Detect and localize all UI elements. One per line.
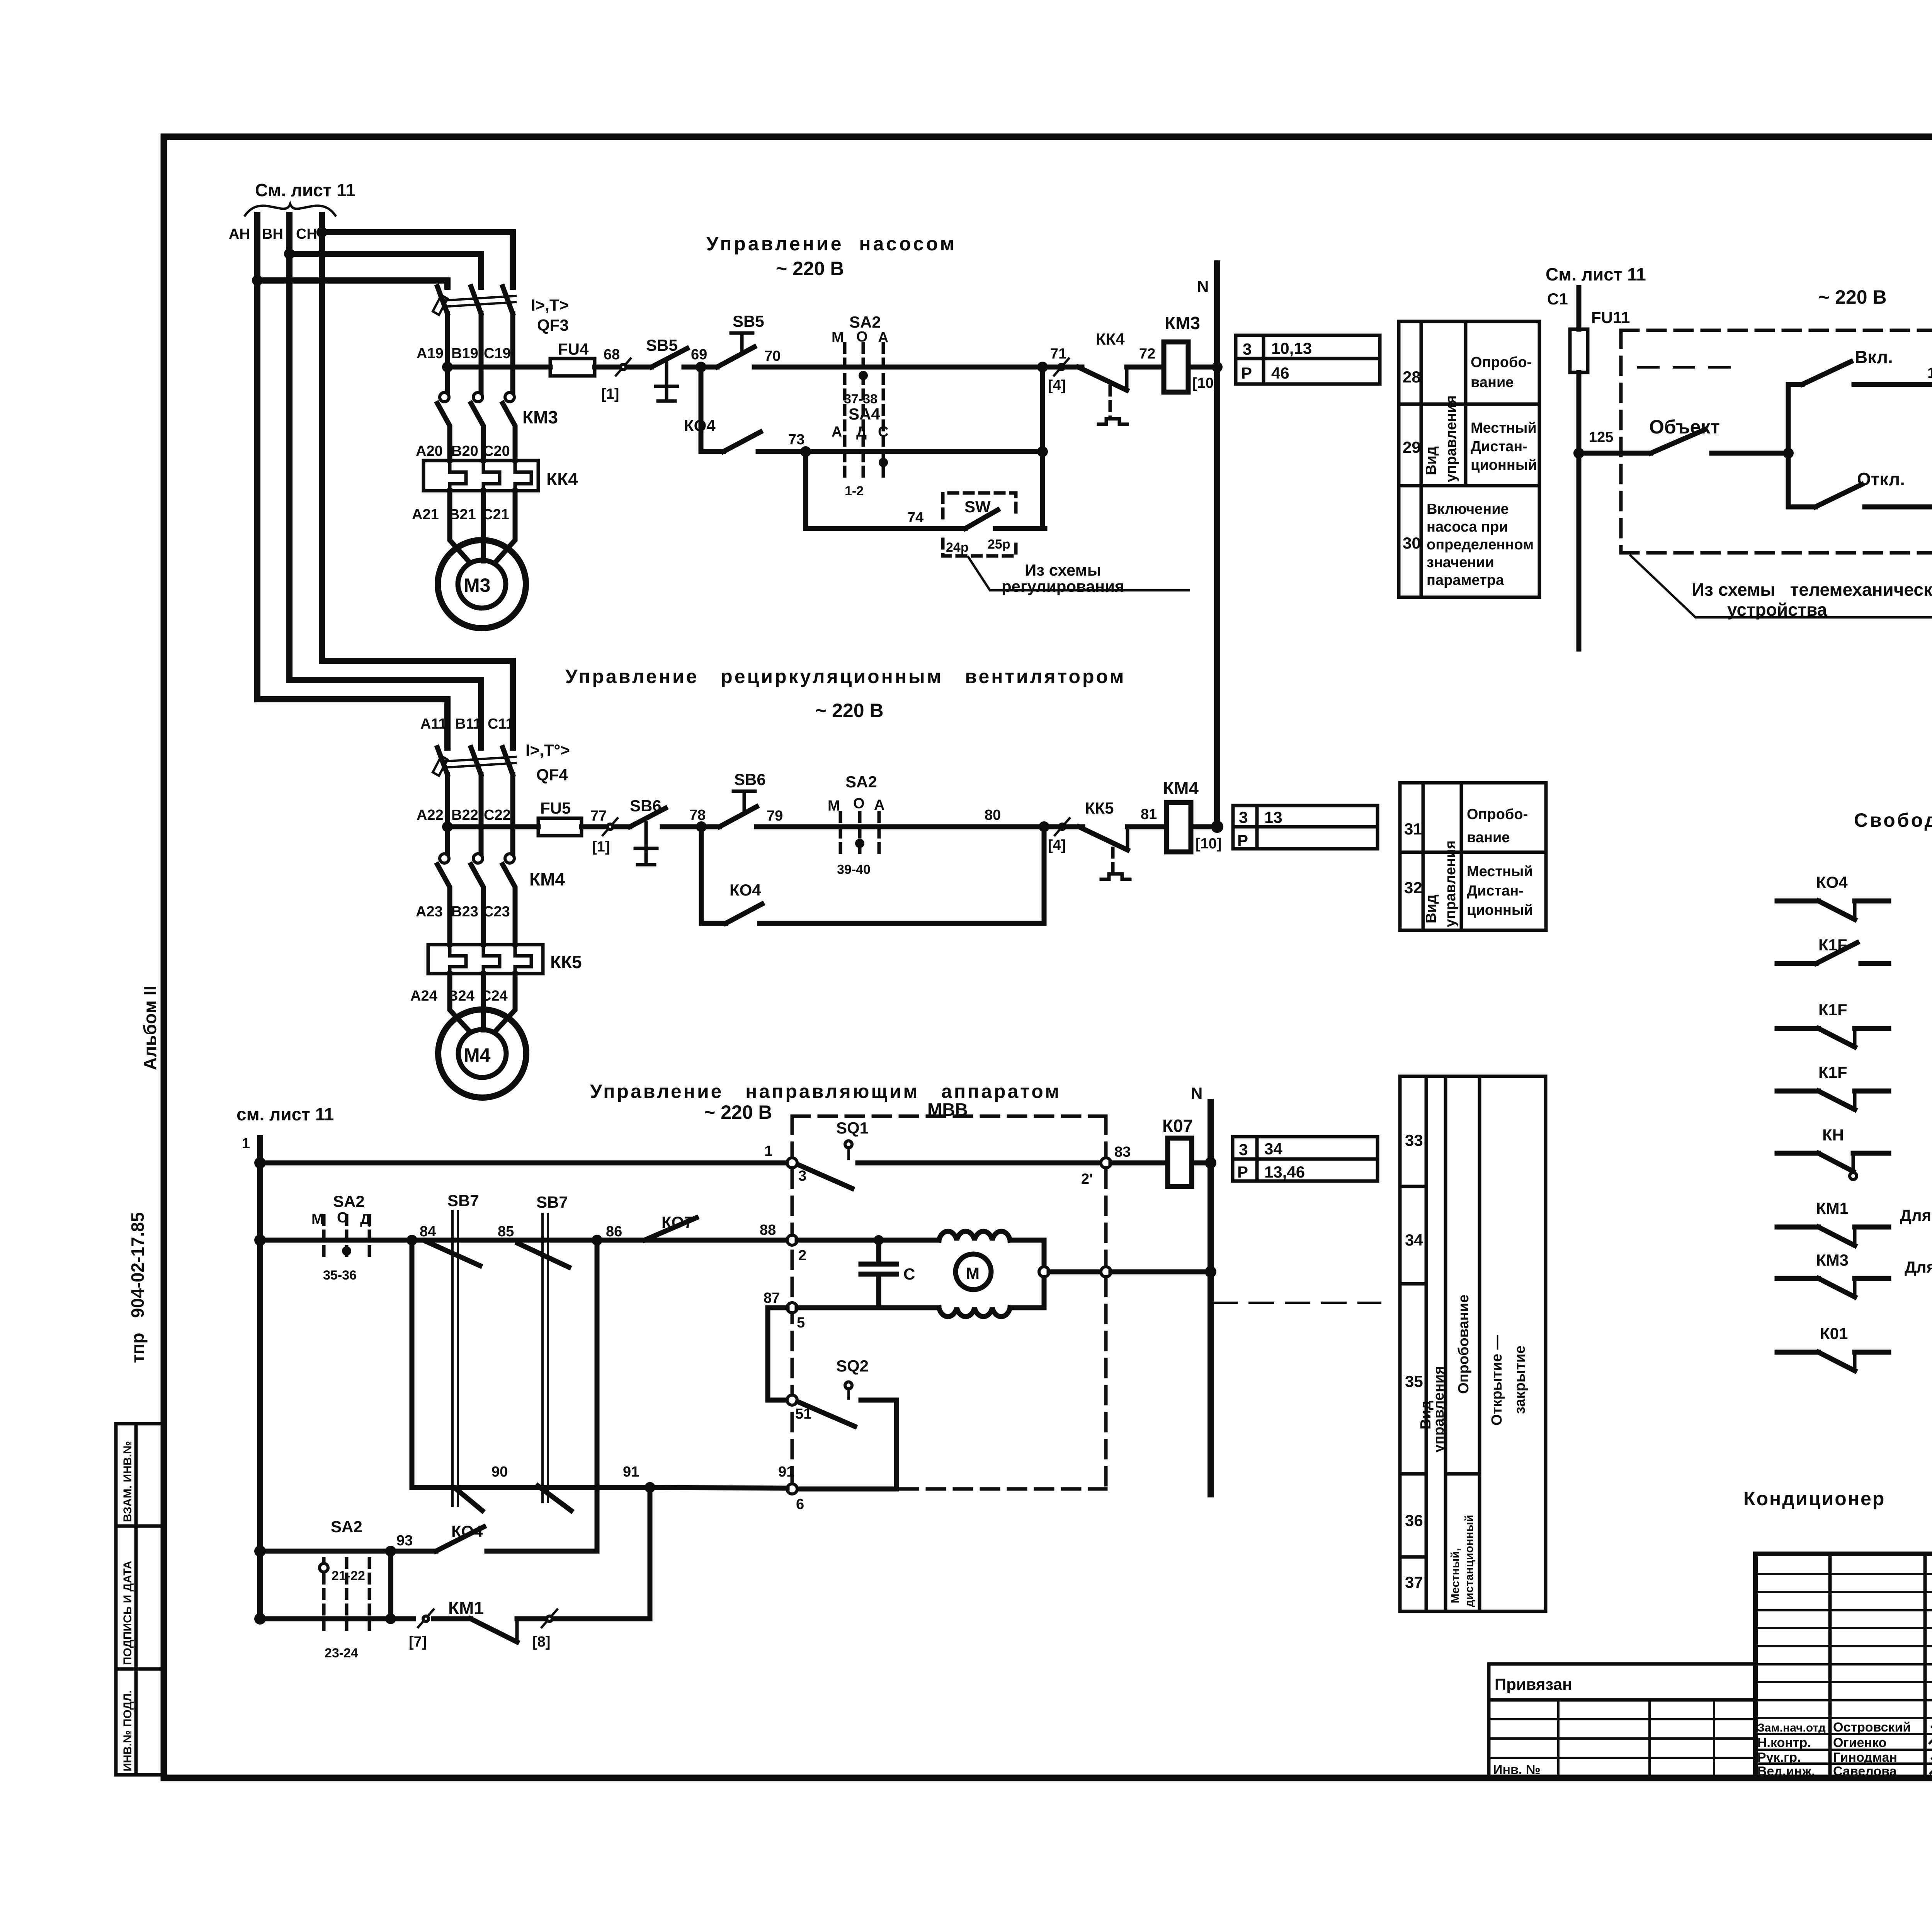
- svg-text:Гинодман: Гинодман: [1833, 1750, 1897, 1765]
- svg-text:~ 220 В: ~ 220 В: [776, 258, 844, 279]
- phase conductors below QF4: [445, 795, 450, 854]
- contact К01 (spare): [1777, 1324, 1889, 1371]
- loop wire 87 to 51: [768, 1308, 787, 1400]
- svg-text:Включение: Включение: [1427, 501, 1509, 517]
- svg-text:13,46: 13,46: [1264, 1163, 1305, 1181]
- svg-text:31: 31: [1404, 820, 1422, 838]
- brace under note: [245, 204, 335, 216]
- svg-text:ционный: ционный: [1467, 902, 1533, 918]
- svg-text:А11: А11: [420, 716, 447, 732]
- svg-text:Привязан: Привязан: [1495, 1675, 1572, 1693]
- feeder wires to QF4: [322, 661, 513, 748]
- svg-text:М: М: [311, 1211, 324, 1227]
- svg-text:46: 46: [1271, 364, 1289, 382]
- svg-text:80: 80: [985, 807, 1001, 823]
- address box 3/10,13 Р/46: [1236, 335, 1380, 384]
- wire motor to N: [1049, 1270, 1101, 1275]
- stamp box: Подпись и дата: [116, 1526, 164, 1669]
- svg-text:SB5: SB5: [733, 312, 764, 330]
- svg-text:С22: С22: [484, 807, 511, 823]
- node on ВН: [284, 248, 295, 259]
- svg-text:2': 2': [1081, 1171, 1093, 1187]
- feeder wire АН to A19: [257, 280, 447, 287]
- node 87: [787, 1303, 797, 1313]
- selector SA2 (bottom): [320, 1518, 369, 1660]
- svg-text:84: 84: [420, 1224, 436, 1240]
- svg-text:SQ2: SQ2: [836, 1357, 869, 1375]
- contact Объект: [1579, 416, 1788, 453]
- svg-text:С21: С21: [482, 506, 509, 523]
- svg-text:[1]: [1]: [601, 386, 619, 402]
- svg-text:Опробо-: Опробо-: [1471, 354, 1532, 370]
- svg-text:37: 37: [1405, 1573, 1423, 1591]
- svg-text:34: 34: [1405, 1231, 1423, 1249]
- svg-text:Р: Р: [1237, 831, 1248, 850]
- svg-text:КМ3: КМ3: [1816, 1251, 1849, 1269]
- svg-text:К1F: К1F: [1818, 1063, 1847, 1081]
- contact K1F no.2 (spare): [1777, 1001, 1889, 1047]
- relay contact K07 (NO): [597, 1213, 787, 1240]
- circuit breaker QF4: [433, 748, 515, 827]
- parameter switch SW: [943, 493, 1045, 556]
- svg-text:13: 13: [1264, 808, 1282, 826]
- svg-text:~ 220 В: ~ 220 В: [704, 1101, 772, 1123]
- svg-text:Огиенко: Огиенко: [1833, 1735, 1886, 1750]
- svg-text:Для блоков: Для блоков: [1905, 1258, 1932, 1276]
- node on СН: [316, 227, 327, 238]
- svg-text:ИНВ.№ ПОДЛ.: ИНВ.№ ПОДЛ.: [121, 1690, 134, 1771]
- contact KM1 with slashes [7] [8]: [409, 1598, 650, 1650]
- svg-text:устройства: устройства: [1727, 600, 1827, 620]
- svg-text:SA2: SA2: [845, 773, 877, 791]
- svg-text:Вед.инж.: Вед.инж.: [1757, 1764, 1815, 1779]
- node 84: [406, 1235, 417, 1246]
- svg-text:См. лист 11: См. лист 11: [1546, 264, 1646, 284]
- svg-text:1-2: 1-2: [845, 484, 864, 498]
- svg-text:SB7: SB7: [447, 1191, 479, 1210]
- KO4 bypass branch (fan): [701, 827, 1044, 923]
- svg-text:SA2: SA2: [331, 1518, 362, 1536]
- svg-text:I>,Т°>: I>,Т°>: [526, 741, 570, 759]
- stamp box: Инв. № подл.: [116, 1669, 164, 1775]
- svg-text:КК4: КК4: [546, 469, 578, 489]
- svg-text:С20: С20: [483, 443, 510, 459]
- phase conductors below QF3: [445, 335, 450, 393]
- vertical from 86 down to KO4 row: [595, 1240, 600, 1551]
- svg-text:Управление насосом: Управление насосом: [706, 233, 957, 255]
- svg-text:М3: М3: [464, 574, 490, 596]
- start button SB6 (NO): [719, 770, 766, 827]
- limit switch SQ1: [798, 1119, 1101, 1188]
- svg-text:88: 88: [760, 1222, 776, 1238]
- leader from SW to regulation scheme note: [968, 557, 1189, 590]
- capacitor C: [861, 1240, 915, 1308]
- node A19 tap: [442, 362, 453, 372]
- svg-text:Вид: Вид: [1423, 446, 1439, 475]
- svg-text:ционный: ционный: [1471, 457, 1537, 473]
- svg-text:АН: АН: [229, 226, 250, 242]
- svg-text:С: С: [903, 1265, 915, 1283]
- wire to node 69: [684, 365, 717, 370]
- node on АН: [252, 275, 263, 286]
- svg-text:Объект: Объект: [1649, 416, 1720, 438]
- svg-text:79: 79: [767, 808, 783, 824]
- svg-text:34: 34: [1264, 1140, 1282, 1158]
- svg-text:69: 69: [691, 347, 707, 363]
- wire to coil: [1128, 824, 1167, 829]
- node 73: [800, 446, 811, 457]
- svg-text:КМ1: КМ1: [1816, 1199, 1849, 1217]
- svg-text:дистанционный: дистанционный: [1463, 1515, 1476, 1607]
- control wire to FU5: [447, 824, 538, 829]
- svg-text:ВЗАМ. ИНВ.№: ВЗАМ. ИНВ.№: [121, 1441, 134, 1522]
- svg-text:[10]: [10]: [1196, 836, 1222, 852]
- svg-text:37-38: 37-38: [844, 392, 878, 406]
- svg-text:Откл.: Откл.: [1857, 469, 1905, 489]
- svg-text:КМ3: КМ3: [522, 407, 558, 427]
- svg-text:81: 81: [1141, 806, 1157, 823]
- svg-text:32: 32: [1404, 879, 1422, 897]
- svg-text:~ 220 В: ~ 220 В: [1818, 286, 1887, 308]
- svg-text:Свободные контакты: Свободные контакты: [1854, 809, 1932, 831]
- svg-text:N: N: [1197, 277, 1209, 296]
- svg-text:см. лист 11: см. лист 11: [236, 1104, 334, 1124]
- svg-text:68: 68: [604, 347, 620, 363]
- stop button SB6 (NC): [630, 797, 665, 865]
- svg-text:А23: А23: [416, 904, 443, 920]
- contact K1F no.1 (spare): [1777, 936, 1889, 964]
- wire SA4 row: [806, 449, 1043, 454]
- leads into motor M4: [450, 974, 468, 1030]
- svg-text:2: 2: [798, 1247, 806, 1264]
- leads between KM4 and KK5: [447, 922, 452, 945]
- wire coil to N: [1188, 365, 1217, 370]
- svg-text:М: М: [828, 798, 840, 814]
- contactor KM3 main contacts: [437, 393, 558, 461]
- contactor coil KM3: [1164, 342, 1188, 392]
- svg-text:3: 3: [1239, 808, 1248, 826]
- svg-text:126: 126: [1927, 365, 1932, 381]
- push button SB7 (first, twin plunger): [427, 1191, 482, 1511]
- node 69: [696, 362, 706, 372]
- svg-text:СН: СН: [296, 226, 317, 242]
- svg-text:10,13: 10,13: [1271, 339, 1312, 357]
- svg-text:Кондиционер: Кондиционер: [1743, 1488, 1885, 1509]
- bottom interlock wire 90-91: [412, 1240, 794, 1493]
- N bus (circuit 3): [1207, 1102, 1214, 1494]
- svg-text:Местный: Местный: [1471, 420, 1537, 436]
- svg-text:А20: А20: [416, 443, 443, 459]
- svg-text:Местный: Местный: [1467, 863, 1533, 880]
- svg-text:33: 33: [1405, 1131, 1423, 1149]
- node 80 junction: [1039, 821, 1049, 832]
- contactor KM4 main contacts: [437, 854, 565, 922]
- svg-text:К01: К01: [1820, 1324, 1848, 1343]
- wire node70 to SA2: [754, 365, 1043, 370]
- svg-text:А22: А22: [417, 807, 444, 823]
- svg-text:А21: А21: [412, 506, 439, 523]
- svg-text:71: 71: [1050, 346, 1066, 362]
- svg-text:Опробование: Опробование: [1456, 1295, 1472, 1394]
- svg-text:85: 85: [498, 1224, 514, 1240]
- svg-text:~ 220 В: ~ 220 В: [815, 700, 884, 721]
- svg-text:определенном: определенном: [1427, 537, 1534, 553]
- wire coil to N: [1191, 824, 1217, 829]
- svg-text:90: 90: [492, 1464, 508, 1480]
- svg-text:В22: В22: [451, 807, 478, 823]
- svg-text:тпр 904-02-17.85: тпр 904-02-17.85: [128, 1212, 148, 1363]
- svg-text:Дистан-: Дистан-: [1471, 438, 1527, 455]
- svg-text:С19: С19: [484, 345, 511, 362]
- svg-text:91: 91: [778, 1464, 794, 1480]
- table rows 33-37: [1400, 1076, 1546, 1611]
- svg-text:Зам.нач.отд: Зам.нач.отд: [1757, 1722, 1826, 1734]
- svg-text:86: 86: [606, 1224, 622, 1240]
- svg-text:А: А: [874, 797, 884, 813]
- svg-text:КК5: КК5: [1085, 799, 1114, 817]
- svg-text:70: 70: [764, 348, 781, 364]
- svg-text:Островский: Островский: [1833, 1720, 1911, 1735]
- svg-text:КМ4: КМ4: [1163, 778, 1199, 798]
- svg-text:вание: вание: [1471, 374, 1514, 391]
- thermal contact KK4 (NC): [1043, 330, 1127, 424]
- circuit breaker QF3: [433, 287, 515, 367]
- svg-text:регулирования: регулирования: [1002, 577, 1124, 595]
- tie 93 down to KM1 row: [388, 1551, 393, 1619]
- fuse FU5: [538, 818, 582, 836]
- feeder wire СН to C19: [322, 232, 513, 287]
- svg-text:КО4: КО4: [684, 416, 716, 435]
- motor M3: [438, 540, 526, 628]
- stop button SB5 (NC): [646, 336, 687, 401]
- node 86: [592, 1235, 602, 1246]
- svg-text:Опробо-: Опробо-: [1467, 806, 1528, 823]
- svg-text:М: М: [966, 1264, 980, 1282]
- svg-text:М4: М4: [464, 1044, 491, 1066]
- wire row SA2/KO4: [260, 1549, 391, 1554]
- attachment box Привязан: [1489, 1664, 1755, 1778]
- contact КМ1 (spare): [1777, 1199, 1932, 1246]
- svg-text:Савелова: Савелова: [1833, 1764, 1897, 1779]
- svg-text:74: 74: [907, 510, 923, 526]
- selector switch SA2 (fan): [828, 773, 884, 877]
- svg-text:36: 36: [1405, 1511, 1423, 1530]
- svg-text:КМ3: КМ3: [1165, 313, 1200, 333]
- svg-text:Дистан-: Дистан-: [1467, 883, 1524, 899]
- svg-text:SA2: SA2: [333, 1192, 365, 1210]
- svg-text:6: 6: [796, 1496, 804, 1513]
- wire to coil: [1127, 365, 1164, 370]
- svg-text:SB5: SB5: [646, 336, 678, 354]
- contact K1F no.3 (spare): [1777, 1063, 1889, 1110]
- svg-text:ПОДПИСЬ И ДАТА: ПОДПИСЬ И ДАТА: [121, 1561, 134, 1665]
- motor M4: [438, 1009, 526, 1098]
- svg-text:23-24: 23-24: [325, 1646, 358, 1660]
- svg-text:[4]: [4]: [1048, 377, 1066, 394]
- svg-text:ВН: ВН: [262, 226, 283, 242]
- svg-text:FU11: FU11: [1591, 308, 1630, 326]
- svg-text:КО4: КО4: [730, 881, 761, 899]
- title block outer: [1755, 1554, 1932, 1778]
- svg-text:управления: управления: [1431, 1366, 1447, 1453]
- node 93: [385, 1546, 396, 1557]
- svg-text:FU4: FU4: [558, 340, 589, 358]
- svg-text:I>,Т>: I>,Т>: [531, 296, 569, 314]
- svg-text:73: 73: [788, 432, 804, 448]
- svg-text:35-36: 35-36: [323, 1268, 357, 1283]
- svg-text:93: 93: [396, 1533, 413, 1549]
- svg-text:управления: управления: [1443, 395, 1459, 482]
- svg-text:К1F: К1F: [1818, 1001, 1847, 1019]
- svg-text:Вкл.: Вкл.: [1855, 347, 1893, 367]
- svg-text:КК5: КК5: [550, 952, 582, 972]
- address box 3/34 Р/13,46: [1233, 1137, 1378, 1181]
- svg-text:QF4: QF4: [536, 766, 568, 784]
- N bus (circuits 1-2): [1214, 263, 1220, 827]
- dash-dot tie line to table: [1213, 1302, 1380, 1304]
- wire row 1 to SQ1: [260, 1161, 787, 1166]
- start button SB5 (NO): [717, 312, 764, 367]
- thermal overload KK5 heaters: [428, 945, 582, 974]
- svg-text:125: 125: [1589, 429, 1613, 445]
- KO4 bypass branch: [684, 367, 806, 452]
- svg-text:SW: SW: [964, 498, 991, 516]
- svg-text:[8]: [8]: [532, 1634, 550, 1650]
- svg-text:Р: Р: [1237, 1163, 1248, 1181]
- svg-text:Управление направляющим ап: Управление направляющим аппаратом: [590, 1081, 1061, 1102]
- svg-text:значении: значении: [1427, 554, 1494, 571]
- wire to node 78: [662, 824, 719, 829]
- svg-text:вание: вание: [1467, 829, 1510, 846]
- dashed enclosure МВВ: [792, 1100, 1106, 1489]
- svg-text:К07: К07: [1162, 1116, 1193, 1136]
- svg-text:КО4: КО4: [1816, 873, 1848, 891]
- fuse FU4: [550, 359, 595, 376]
- svg-text:Инв. №: Инв. №: [1493, 1762, 1541, 1777]
- left bus (circuit 3): [257, 1138, 263, 1619]
- table rows 28-30: [1399, 321, 1539, 597]
- selector switch SA2 (pump): [832, 313, 888, 481]
- svg-text:1: 1: [242, 1135, 250, 1152]
- supply line C1: [1577, 287, 1582, 329]
- svg-text:83: 83: [1114, 1144, 1131, 1160]
- bus СН: [319, 215, 325, 661]
- svg-text:С1: С1: [1547, 290, 1568, 308]
- svg-text:насоса при: насоса при: [1427, 519, 1508, 535]
- svg-text:А24: А24: [410, 988, 437, 1004]
- contact КМ3 (spare): [1777, 1251, 1932, 1297]
- svg-text:Д: Д: [856, 424, 867, 440]
- svg-text:В21: В21: [449, 506, 476, 523]
- svg-text:закрытие: закрытие: [1512, 1346, 1528, 1414]
- svg-text:25р: 25р: [988, 537, 1010, 552]
- svg-text:Из схемы телемеханического: Из схемы телемеханического: [1692, 580, 1932, 600]
- svg-text:[4]: [4]: [1048, 837, 1066, 853]
- svg-text:30: 30: [1403, 534, 1421, 552]
- svg-text:[7]: [7]: [409, 1634, 427, 1650]
- svg-text:Вид: Вид: [1423, 894, 1439, 923]
- svg-text:С23: С23: [483, 904, 510, 920]
- wire to K07 coil: [1111, 1161, 1168, 1166]
- relay contact KO4 (NO): [391, 1522, 597, 1551]
- contact КН (spare): [1777, 1126, 1889, 1179]
- thermal contact KK5 (NC): [1044, 799, 1130, 879]
- vertical from 91 down to KM1 row: [648, 1487, 653, 1619]
- svg-text:параметра: параметра: [1427, 572, 1504, 588]
- svg-text:Управление рециркуляционным: Управление рециркуляционным вентилятором: [565, 666, 1126, 687]
- svg-text:А19: А19: [417, 345, 444, 362]
- wire to SA2: [757, 824, 1044, 829]
- svg-text:В19: В19: [451, 345, 478, 362]
- svg-text:КМ4: КМ4: [529, 869, 565, 889]
- node A22 tap: [442, 821, 453, 832]
- node 6: [787, 1484, 797, 1494]
- contact Вкл.: [1788, 347, 1932, 453]
- svg-text:1: 1: [764, 1143, 772, 1159]
- svg-text:А: А: [832, 424, 842, 440]
- svg-text:SB7: SB7: [536, 1193, 568, 1211]
- svg-text:В23: В23: [451, 904, 478, 920]
- svg-text:24р: 24р: [946, 540, 969, 555]
- fuse FU11: [1570, 329, 1588, 372]
- svg-text:SB6: SB6: [734, 770, 766, 789]
- svg-text:Местный,: Местный,: [1449, 1548, 1462, 1603]
- SW row wire: [806, 526, 965, 531]
- svg-text:77: 77: [590, 808, 607, 824]
- svg-text:39-40: 39-40: [837, 862, 871, 877]
- leads into motor: [450, 491, 468, 561]
- svg-text:N: N: [1191, 1084, 1202, 1102]
- svg-text:Для блоков: Для блоков: [1900, 1206, 1932, 1224]
- svg-text:FU5: FU5: [540, 799, 571, 817]
- svg-text:КН: КН: [1822, 1126, 1844, 1144]
- svg-text:С: С: [878, 424, 888, 440]
- svg-text:Р: Р: [1241, 364, 1252, 382]
- svg-text:3: 3: [1243, 340, 1252, 358]
- motor M (single phase) windings: [879, 1231, 1044, 1317]
- dashed box telemechanics: [1621, 330, 1932, 553]
- svg-text:Н.контр.: Н.контр.: [1757, 1735, 1811, 1750]
- svg-text:Рук.гр.: Рук.гр.: [1757, 1750, 1801, 1765]
- svg-text:21-22: 21-22: [332, 1569, 365, 1583]
- svg-text:КК4: КК4: [1096, 330, 1125, 348]
- limit switch SQ2: [797, 1357, 896, 1489]
- contact Откл.: [1788, 453, 1932, 507]
- contact KO4 (spare): [1777, 873, 1889, 919]
- svg-text:91: 91: [623, 1464, 639, 1480]
- svg-text:5: 5: [797, 1315, 805, 1331]
- svg-text:QF3: QF3: [537, 316, 569, 334]
- wire into box row2: [797, 1238, 939, 1243]
- wire: [595, 365, 651, 370]
- svg-text:87: 87: [764, 1290, 780, 1306]
- svg-text:29: 29: [1403, 438, 1421, 456]
- table rows 31-32: [1400, 783, 1546, 930]
- svg-text:Из схемы: Из схемы: [1025, 561, 1101, 579]
- svg-text:М: М: [832, 330, 844, 346]
- svg-text:В11: В11: [455, 716, 481, 732]
- bus ВН: [286, 215, 293, 680]
- svg-text:Открытие —: Открытие —: [1489, 1335, 1505, 1426]
- svg-text:управления: управления: [1442, 840, 1459, 927]
- leader: Из схемы телемеханического устройства: [1631, 556, 1932, 617]
- svg-text:28: 28: [1403, 368, 1421, 386]
- sheet border frame: [164, 137, 1932, 1778]
- svg-text:КМ1: КМ1: [448, 1598, 484, 1618]
- svg-text:3: 3: [1239, 1140, 1248, 1159]
- svg-text:В20: В20: [451, 443, 478, 459]
- thermal overload KK4 heaters: [423, 461, 578, 491]
